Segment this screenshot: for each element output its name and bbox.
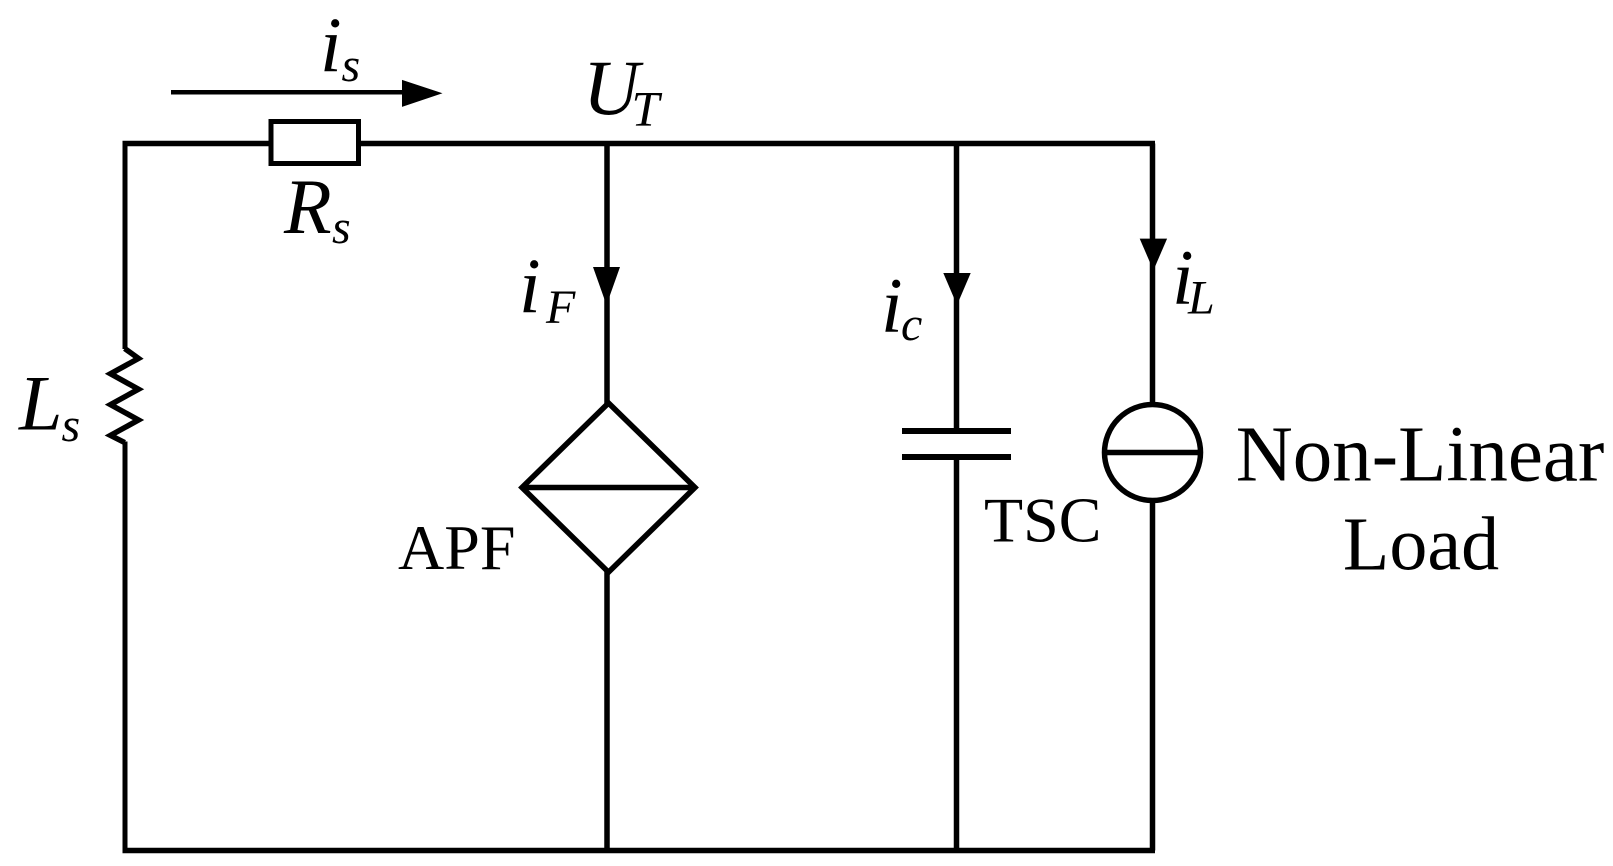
svg-text:R: R (283, 163, 332, 250)
node UT (583, 44, 663, 137)
svg-text:s: s (62, 399, 81, 452)
svg-text:s: s (342, 39, 361, 92)
wire left vertical upper (123, 141, 128, 349)
arrow iF (593, 267, 620, 305)
wire load branch upper (1150, 144, 1156, 407)
source non-linear load circle (1102, 405, 1203, 501)
inductor Ls zigzag (111, 349, 139, 443)
svg-text:Load: Load (1343, 502, 1499, 586)
label iL (1172, 233, 1215, 324)
svg-text:i: i (881, 262, 903, 349)
wire left vertical lower (123, 442, 128, 854)
label Ls (18, 360, 80, 453)
svg-text:s: s (332, 201, 351, 254)
resistor Rs (271, 122, 359, 164)
wire top bus (123, 141, 1156, 147)
wire load branch lower (1150, 499, 1156, 851)
wire APF branch upper (604, 144, 610, 407)
svg-text:c: c (901, 298, 922, 351)
svg-text:L: L (18, 360, 62, 447)
wire APF branch lower (604, 570, 610, 851)
label iF (519, 242, 576, 334)
svg-text:i: i (320, 1, 342, 88)
arrow iL (1140, 239, 1167, 271)
wire bottom bus (123, 848, 1156, 854)
label Rs (283, 163, 351, 254)
wire TSC branch upper (954, 144, 960, 432)
svg-text:i: i (519, 242, 541, 329)
svg-text:Non-Linear: Non-Linear (1236, 411, 1605, 498)
current arrow is (171, 80, 443, 107)
label ic (881, 262, 922, 352)
capacitor TSC (902, 431, 1011, 457)
label Non-Linear Load (1236, 411, 1605, 586)
svg-text:T: T (632, 81, 663, 137)
arrow ic (943, 273, 970, 305)
svg-text:F: F (545, 281, 576, 334)
svg-text:L: L (1187, 272, 1215, 325)
label is (320, 1, 360, 92)
wire TSC branch lower (954, 457, 960, 851)
op APF controlled source diamond (522, 403, 695, 572)
svg-text:TSC: TSC (984, 484, 1101, 555)
svg-text:APF: APF (398, 512, 515, 583)
